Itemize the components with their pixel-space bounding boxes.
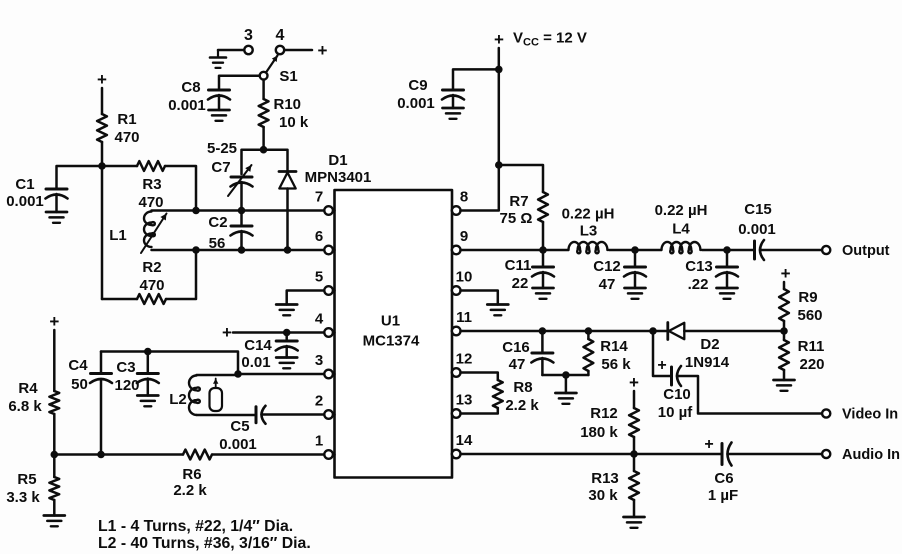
svg-text:R12: R12 <box>590 405 618 422</box>
ground under R13 <box>624 517 645 528</box>
wire pin14 audio rail <box>461 453 723 456</box>
svg-text:4: 4 <box>315 311 324 328</box>
svg-text:R2: R2 <box>142 259 161 276</box>
wire tank rail upper <box>100 352 103 374</box>
node R7 branch <box>495 161 503 169</box>
wire C12 to ground <box>634 272 637 288</box>
svg-text:470: 470 <box>139 277 164 294</box>
svg-text:+: + <box>494 30 504 49</box>
wire C12 stub <box>634 250 637 267</box>
U1 pin 8 <box>452 189 468 215</box>
capacitor C13 <box>685 258 738 293</box>
svg-text:R1: R1 <box>117 111 136 128</box>
wire R8 to pin13 <box>461 408 498 414</box>
wire S1 to R10 <box>262 80 265 99</box>
inductor L4 <box>655 202 708 253</box>
wire R14 top stub <box>587 331 590 339</box>
wire VCC to pin 8 <box>461 165 499 211</box>
wire audio rail left <box>54 453 183 456</box>
resistor R14 <box>584 338 632 373</box>
resistor R4 <box>8 380 59 415</box>
resistor R5 <box>6 471 59 506</box>
svg-text:0.22 µH: 0.22 µH <box>562 206 615 223</box>
wire R10 to node <box>262 127 265 150</box>
U1 pin 11 <box>452 309 472 335</box>
ground under C8 <box>209 110 230 121</box>
ground under C12 <box>625 288 646 299</box>
svg-text:0.22 µH: 0.22 µH <box>655 202 708 219</box>
node C2/pin6 rail <box>238 246 246 254</box>
svg-text:S1: S1 <box>279 68 297 85</box>
svg-text:10 k: 10 k <box>279 114 309 131</box>
svg-text:56 k: 56 k <box>601 356 631 373</box>
svg-text:1N914: 1N914 <box>685 354 730 371</box>
svg-text:R7: R7 <box>509 193 528 210</box>
svg-text:C2: C2 <box>208 214 227 231</box>
svg-text:3.3 k: 3.3 k <box>6 489 40 506</box>
svg-text:120: 120 <box>114 377 139 394</box>
wire to R7 <box>499 165 543 192</box>
resistor R7 <box>500 192 548 227</box>
svg-text:+: + <box>318 41 328 60</box>
L2 core <box>210 388 223 411</box>
svg-text:2.2 k: 2.2 k <box>173 482 207 499</box>
ground under C13 <box>717 288 738 299</box>
wire R9 to node <box>783 321 786 331</box>
wire C8 to ground <box>218 95 221 110</box>
terminal Video In <box>822 407 898 423</box>
plus mark above R4 <box>49 312 59 331</box>
svg-text:10: 10 <box>456 269 473 286</box>
wire R5 to ground <box>53 500 56 516</box>
wire pin9 rail <box>461 249 569 252</box>
diode D1 MPN3401 <box>279 152 371 189</box>
U1 pin 10 <box>452 269 472 295</box>
wire R6 to pin 1 <box>212 453 324 456</box>
node bottom rail ground tap <box>562 371 570 379</box>
wire C9 to ground <box>452 95 455 108</box>
wire R3 to pin7 rail <box>165 166 196 211</box>
U1 pin 3 <box>315 352 335 378</box>
svg-text:3: 3 <box>244 27 253 44</box>
ground under R11 <box>774 380 795 391</box>
wire C16 to bottom rail <box>541 358 544 375</box>
resistor R12 <box>580 405 639 441</box>
svg-text:C14: C14 <box>244 337 272 354</box>
wire L2 bottom to C5 <box>197 414 257 417</box>
svg-text:50: 50 <box>71 376 88 393</box>
plus supply mark above R1 <box>97 70 107 89</box>
svg-text:C15: C15 <box>744 201 772 218</box>
svg-text:1: 1 <box>315 433 323 450</box>
wire R13 stubs <box>633 454 636 517</box>
svg-text:R11: R11 <box>798 338 825 355</box>
svg-text:5-25: 5-25 <box>207 140 237 157</box>
ground under C3 <box>137 396 158 407</box>
svg-text:+: + <box>97 70 107 89</box>
plus mark C10 <box>657 357 666 374</box>
wire C7 to pin7 rail <box>240 182 243 211</box>
plus mark above R9 <box>781 264 791 283</box>
U1 pin 7 <box>315 189 335 215</box>
wire node to C1 <box>57 166 103 189</box>
svg-text:.22: .22 <box>688 276 709 293</box>
wire R4 to audio rail <box>53 414 56 455</box>
svg-text:0.001: 0.001 <box>397 95 435 112</box>
U1 pin 4 <box>315 311 335 337</box>
svg-text:R14: R14 <box>600 338 628 355</box>
wire VCC down <box>498 48 501 165</box>
svg-text:C13: C13 <box>685 258 713 275</box>
capacitor C8 <box>168 79 230 114</box>
svg-text:0.001: 0.001 <box>6 193 44 210</box>
svg-text:R6: R6 <box>182 466 201 483</box>
svg-text:R3: R3 <box>142 176 161 193</box>
svg-text:0.001: 0.001 <box>168 97 206 114</box>
svg-text:+: + <box>222 323 232 342</box>
svg-text:C12: C12 <box>593 258 621 275</box>
svg-text:9: 9 <box>460 228 468 245</box>
wire C3 stub <box>147 352 150 374</box>
switch S1 arm <box>266 56 278 73</box>
svg-text:R5: R5 <box>17 471 36 488</box>
terminal Output <box>822 243 890 259</box>
L2 core arrow <box>213 379 218 388</box>
svg-text:220: 220 <box>799 356 824 373</box>
svg-text:L4: L4 <box>672 221 690 238</box>
svg-text:D2: D2 <box>700 336 719 353</box>
node C12 tap <box>631 246 639 254</box>
terminal Audio In <box>822 447 900 463</box>
wire R1 top <box>101 88 104 114</box>
inductor L1 <box>109 212 155 248</box>
wire C16 stub <box>541 331 544 353</box>
capacitor C4 <box>68 357 112 393</box>
svg-text:6.8 k: 6.8 k <box>8 398 42 415</box>
capacitor C3 <box>114 359 158 394</box>
capacitor C9 <box>397 77 464 112</box>
C7 tuning arrow <box>228 165 252 196</box>
wire R7 to pin9 rail <box>542 222 545 250</box>
svg-text:0.01: 0.01 <box>241 354 270 371</box>
wire pin11 rail <box>461 330 668 333</box>
wire R12 to audio rail <box>633 437 636 454</box>
L1 tuning arrow <box>141 214 167 254</box>
svg-text:L1 - 4 Turns, #22, 1/4″ Dia.: L1 - 4 Turns, #22, 1/4″ Dia. <box>98 518 293 535</box>
svg-text:C4: C4 <box>68 357 88 374</box>
variable capacitor C7 <box>207 140 253 187</box>
svg-text:4: 4 <box>276 27 285 44</box>
svg-text:180 k: 180 k <box>580 424 618 441</box>
capacitor C16 <box>502 339 553 373</box>
note L2 winding <box>98 535 311 552</box>
svg-text:470: 470 <box>138 194 163 211</box>
wire R12 top <box>633 391 636 408</box>
capacitor C12 <box>593 258 646 293</box>
diode D2 1N914 <box>668 323 730 372</box>
svg-text:MPN3401: MPN3401 <box>305 169 372 186</box>
wire C10 to video rail <box>677 376 822 414</box>
wire R11 bottom <box>783 331 786 380</box>
wire terminal 4 right <box>284 49 312 52</box>
node C14 tap <box>283 329 291 337</box>
terminal 3 <box>244 27 253 54</box>
wire tank rail lower <box>100 381 103 456</box>
svg-text:C10: C10 <box>663 386 691 403</box>
node C11 tap <box>539 246 547 254</box>
capacitor C1 <box>6 176 67 210</box>
svg-text:12: 12 <box>456 351 473 368</box>
plus mark C14 rail <box>222 323 232 342</box>
node R1/C1/R3/R2 <box>98 162 106 170</box>
wire S1 to C8 <box>219 76 260 90</box>
node C4 audio tap <box>97 451 105 459</box>
ground under C9 <box>443 108 464 119</box>
svg-text:11: 11 <box>456 309 472 326</box>
node D1/pin6 rail <box>284 246 292 254</box>
svg-text:22: 22 <box>512 275 529 292</box>
wire to R2 <box>102 298 137 301</box>
resistor R1 <box>97 111 139 146</box>
U1 pin 1 <box>315 433 335 459</box>
svg-text:3: 3 <box>315 352 323 369</box>
wire C2 top stub <box>240 211 243 227</box>
wire to ground <box>565 375 568 393</box>
plus mark above R12 <box>629 373 639 392</box>
wire L4 to node <box>702 249 755 252</box>
svg-text:47: 47 <box>509 356 526 373</box>
svg-text:D1: D1 <box>328 152 347 169</box>
svg-text:C16: C16 <box>502 339 530 356</box>
svg-text:C1: C1 <box>15 176 34 193</box>
capacitor C2 <box>208 214 252 252</box>
svg-text:C6: C6 <box>714 470 733 487</box>
svg-text:470: 470 <box>114 129 139 146</box>
svg-text:R13: R13 <box>591 470 619 487</box>
svg-text:L3: L3 <box>580 223 598 240</box>
wire C16/R14 bottom rail <box>542 374 588 377</box>
svg-text:C8: C8 <box>181 79 200 96</box>
wire C14 stub <box>285 333 288 342</box>
svg-text:6: 6 <box>315 228 323 245</box>
wire D1 to pin6 rail <box>286 189 289 251</box>
wire R2 to pin6 rail <box>166 250 196 299</box>
wire pin6 rail <box>152 249 325 252</box>
ground under C16/R14 <box>555 393 576 404</box>
wire C11 stub <box>542 250 545 267</box>
U1 pin 9 <box>452 228 468 254</box>
resistor R13 <box>588 470 639 504</box>
wire C14 to ground <box>285 346 288 358</box>
label 10 k <box>279 114 309 131</box>
wire R5 top stub <box>53 455 56 478</box>
ground pin10 <box>487 305 508 316</box>
wire R1 bottom to node <box>101 142 104 166</box>
U1 pin 6 <box>315 228 335 254</box>
svg-text:R10: R10 <box>274 96 302 113</box>
svg-text:560: 560 <box>797 307 822 324</box>
node R12/R13 audio <box>630 450 638 458</box>
wire L3 to node <box>609 249 661 252</box>
wire R9 top <box>783 282 786 289</box>
node R10/C7/D1 <box>260 146 268 154</box>
inductor L3 <box>562 206 615 254</box>
svg-text:L2: L2 <box>169 391 187 408</box>
plus mark right of terminal 4 <box>318 41 328 60</box>
wire left rail down <box>101 166 104 299</box>
node C16 tap <box>539 327 547 335</box>
U1 pin 13 <box>452 392 472 418</box>
wire C2 to pin6 rail <box>240 231 243 250</box>
wire C1 to ground <box>55 194 58 212</box>
wire C6 to Audio In <box>728 453 823 456</box>
wire C5 to pin 2 <box>262 413 325 416</box>
capacitor C5 <box>219 406 265 453</box>
svg-text:Output: Output <box>842 243 890 259</box>
node C7/C2 on pin7 rail <box>238 207 246 215</box>
wire node to D1 top <box>264 150 288 171</box>
inductor L2 <box>169 376 200 415</box>
resistor R10 <box>259 96 301 127</box>
svg-text:10 µf: 10 µf <box>658 404 693 421</box>
ground under terminal 3 wire <box>210 50 226 68</box>
wire node to C7 top <box>242 150 264 174</box>
svg-text:C9: C9 <box>408 77 427 94</box>
wire D2 node down to C10 <box>653 331 671 376</box>
svg-text:0.001: 0.001 <box>738 221 776 238</box>
ground under R5 <box>44 516 65 527</box>
svg-text:5: 5 <box>315 269 323 286</box>
wire C13 stub <box>726 250 729 267</box>
node D2 branch <box>649 327 657 335</box>
node pin3/L2/tank <box>234 370 242 378</box>
node C13 tap <box>723 246 731 254</box>
svg-text:7: 7 <box>315 189 323 206</box>
terminal 4 <box>276 27 285 54</box>
power VCC label <box>494 30 587 50</box>
capacitor C6 <box>708 443 738 505</box>
svg-text:L1: L1 <box>109 227 127 244</box>
svg-text:+: + <box>704 436 713 453</box>
wire to C9 <box>453 69 499 90</box>
wire L2 top <box>197 374 239 377</box>
resistor R6 <box>173 450 212 499</box>
svg-text:56: 56 <box>209 235 226 252</box>
U1 pin 5 <box>315 269 335 295</box>
svg-text:2.2 k: 2.2 k <box>505 397 539 414</box>
svg-text:Video In: Video In <box>842 407 898 423</box>
wire C13 to ground <box>726 272 729 288</box>
svg-text:R8: R8 <box>513 379 532 396</box>
svg-text:R4: R4 <box>18 380 38 397</box>
wire C11 to ground <box>542 272 545 288</box>
svg-text:14: 14 <box>456 432 473 449</box>
resistor R3 <box>137 161 165 211</box>
capacitor C15 <box>738 201 776 260</box>
svg-text:+: + <box>657 357 666 374</box>
capacitor C10 <box>658 366 693 421</box>
svg-text:+: + <box>781 264 791 283</box>
wire R4 top <box>53 330 56 391</box>
wire terminal 3 left <box>218 49 244 52</box>
svg-text:C5: C5 <box>230 418 249 435</box>
wire pin3 rail <box>238 373 324 376</box>
wire pin10 to ground <box>461 291 498 305</box>
svg-text:1 µF: 1 µF <box>708 487 738 504</box>
svg-text:0.001: 0.001 <box>219 436 257 453</box>
svg-text:+: + <box>629 373 639 392</box>
svg-text:MC1374: MC1374 <box>363 333 420 350</box>
wire tank rail top <box>101 352 238 375</box>
op-amp U1 MC1374 body <box>335 190 453 478</box>
svg-text:47: 47 <box>599 276 616 293</box>
wire pin5 to ground <box>287 291 325 305</box>
ground pin5 <box>276 305 297 316</box>
svg-text:75 Ω: 75 Ω <box>500 210 533 227</box>
capacitor C11 <box>505 257 554 292</box>
U1 pin 12 <box>452 351 472 377</box>
U1 pin 2 <box>315 393 335 419</box>
svg-text:C11: C11 <box>505 257 532 274</box>
svg-text:C3: C3 <box>116 359 135 376</box>
node R9/R11 <box>780 327 788 335</box>
node R2/pin6 rail <box>192 246 200 254</box>
node C9 tap <box>495 66 503 74</box>
note L1 winding <box>98 518 293 535</box>
node R14 tap <box>585 327 593 335</box>
ground under C11 <box>533 288 554 299</box>
wire pin12 to R8 <box>461 373 498 381</box>
resistor R8 <box>493 379 539 414</box>
resistor R11 <box>779 338 824 373</box>
wire R14 bottom stub <box>587 371 590 375</box>
ground under C14 <box>276 358 297 369</box>
svg-text:U1: U1 <box>381 313 400 330</box>
svg-text:8: 8 <box>460 189 468 206</box>
resistor R9 <box>779 289 822 324</box>
node C3 tap <box>144 348 152 356</box>
plus mark C6 <box>704 436 713 453</box>
svg-text:13: 13 <box>456 392 473 409</box>
wire node to R3 <box>102 165 137 168</box>
resistor R2 <box>137 259 166 304</box>
capacitor C14 <box>241 337 297 371</box>
svg-text:2: 2 <box>315 393 323 410</box>
node R3/pin7 rail <box>192 207 200 215</box>
wire pin4 rail <box>233 331 324 334</box>
wire D2 to right node <box>684 330 784 333</box>
svg-text:R9: R9 <box>798 289 817 306</box>
svg-text:+: + <box>49 312 59 331</box>
svg-text:Audio In: Audio In <box>842 447 900 463</box>
ground under C1 <box>46 212 67 223</box>
node R4/R5 audio <box>51 451 59 459</box>
switch S1 pivot <box>260 68 298 85</box>
svg-text:C7: C7 <box>211 159 230 176</box>
wire C3 to ground <box>147 379 150 396</box>
svg-text:30 k: 30 k <box>588 487 618 504</box>
wire C15 to output <box>760 249 822 252</box>
wire pin7 rail <box>152 209 325 212</box>
U1 pin 14 <box>452 432 473 458</box>
svg-text:L2 - 40 Turns, #36, 3/16″ Dia.: L2 - 40 Turns, #36, 3/16″ Dia. <box>98 535 311 552</box>
